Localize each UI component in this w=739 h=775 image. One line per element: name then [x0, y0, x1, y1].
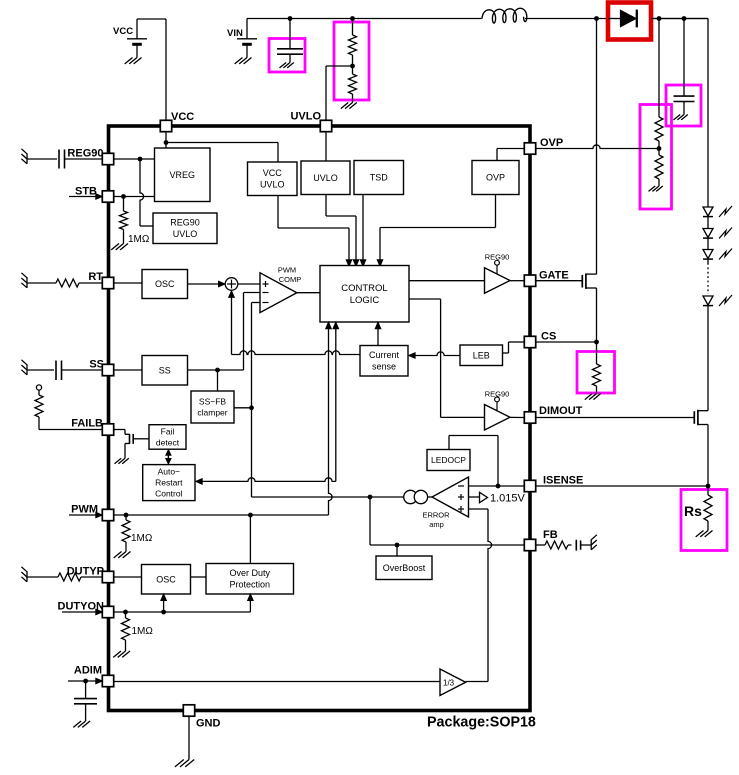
op-amp PWM COMP — [260, 266, 301, 313]
block Over Duty Protection — [206, 564, 294, 595]
wire LEDOCP to isense net — [449, 436, 498, 487]
node PWM branch ODP — [248, 513, 253, 518]
wire FB net — [370, 497, 524, 545]
op-amp ERROR amp — [422, 477, 468, 529]
resistor R-DUTYP — [21, 567, 102, 582]
svg-text:STB: STB — [75, 186, 97, 198]
node DUTYON branch osc — [161, 610, 166, 615]
pin UVLO — [320, 120, 331, 131]
node rail junction divider — [350, 16, 355, 21]
svg-text:PWM: PWM — [71, 504, 98, 516]
pin SS — [102, 364, 113, 375]
svg-text:Auto−: Auto− — [158, 467, 180, 477]
svg-text:SS: SS — [159, 365, 171, 375]
pin RT — [102, 277, 113, 288]
wire CS — [536, 341, 597, 343]
caption Package:SOP18 — [427, 715, 536, 731]
svg-text:DIMOUT: DIMOUT — [539, 405, 583, 417]
wire SS internal — [114, 369, 142, 371]
node isense-ledocp junction — [496, 484, 501, 489]
svg-text:REG90: REG90 — [485, 253, 510, 262]
LED string LED2 — [703, 228, 732, 239]
wire UVLO pin internal — [325, 132, 327, 161]
node OVP divider mid — [657, 146, 662, 151]
buffer 1/3 divider — [440, 669, 466, 696]
pin label UVLO — [290, 111, 321, 123]
node rail junction C-in — [288, 16, 293, 21]
wire DUTYON to over-duty — [248, 594, 254, 612]
wire OVP to logic — [377, 195, 495, 267]
svg-text:ADIM: ADIM — [74, 665, 102, 677]
wire REG90-UVLO link — [140, 159, 153, 226]
node SS branch — [215, 368, 220, 373]
svg-text:FAILB: FAILB — [71, 418, 103, 430]
pin label ISENSE — [543, 475, 583, 487]
pin label GATE — [539, 270, 569, 282]
svg-text:ISENSE: ISENSE — [543, 475, 583, 487]
capacitor C-REG90 — [21, 149, 102, 169]
resistor 1M STB — [111, 197, 150, 250]
block VCC UVLO — [248, 162, 298, 196]
pin label FAILB — [71, 418, 103, 430]
pin CS — [524, 336, 535, 347]
wire VCC-UVLO to logic — [278, 196, 352, 267]
block Auto-Restart Control — [143, 465, 195, 501]
block OverBoost — [376, 556, 432, 580]
LED string LEDn — [703, 295, 732, 306]
wire RT internal — [114, 282, 142, 284]
svg-text:OSC: OSC — [156, 574, 176, 584]
wire ISENSE — [536, 485, 708, 487]
resistor divider R-UVLO-top (magenta) — [334, 19, 369, 101]
svg-text:REG90: REG90 — [67, 148, 103, 160]
wire LEB to cs — [409, 352, 460, 358]
capacitor C-in (magenta) — [269, 19, 305, 73]
block Current sense — [360, 346, 408, 377]
svg-text:OVP: OVP — [486, 173, 505, 183]
pin label CS — [541, 331, 556, 343]
wire DUTYON internal — [114, 611, 251, 613]
svg-text:UVLO: UVLO — [290, 111, 321, 123]
pin GATE — [524, 275, 535, 286]
pin FAILB — [102, 424, 113, 435]
node overboost junction — [395, 543, 400, 548]
node REG90 branch — [138, 157, 143, 162]
buffer dimout driver — [485, 390, 511, 431]
diode D1 — [608, 3, 708, 40]
wire dotted continuation — [707, 260, 709, 294]
resistor Rs (magenta) — [681, 486, 727, 551]
node DUTYON branch 1M — [123, 610, 128, 615]
pin ISENSE — [524, 480, 535, 491]
pin label DUTYP — [67, 566, 104, 578]
wire comparator out — [297, 292, 320, 294]
block VREG — [155, 148, 211, 202]
resistor R-RT — [21, 273, 102, 288]
block OSC duty — [142, 565, 191, 595]
wire UVLO to logic — [326, 195, 359, 267]
svg-text:VCC: VCC — [171, 111, 194, 123]
svg-text:REG90: REG90 — [170, 218, 200, 228]
block UVLO — [301, 161, 350, 195]
svg-text:LEDOCP: LEDOCP — [431, 455, 466, 465]
wire STB internal — [114, 196, 155, 198]
svg-text:VCC: VCC — [113, 26, 133, 37]
capacitor C-FB — [576, 535, 597, 551]
wire UVLO tap — [326, 66, 353, 121]
wire logic to dim driver — [409, 299, 485, 417]
capacitor C-SS — [21, 360, 102, 380]
transistor Q3 fail open-drain — [114, 430, 149, 464]
current source output — [404, 490, 432, 503]
pin label REG90 — [67, 148, 103, 160]
svg-text:sense: sense — [372, 362, 396, 372]
capacitor C-ADIM — [68, 678, 102, 727]
pin DUTYP — [102, 571, 113, 582]
pin label OVP — [540, 137, 563, 149]
svg-text:VREG: VREG — [169, 170, 195, 180]
pin label FB — [543, 529, 558, 541]
svg-text:VCC: VCC — [263, 168, 283, 178]
svg-text:UVLO: UVLO — [313, 173, 338, 183]
block SS-FB clamper — [191, 391, 234, 423]
resistor 1M PWM — [114, 515, 153, 558]
reference 1.015V — [469, 492, 526, 504]
pin STB — [102, 191, 113, 202]
svg-text:Restart: Restart — [155, 478, 183, 488]
wire DUTYON to osc — [161, 594, 167, 612]
wire PWM to over-duty — [249, 515, 251, 564]
bidirectional arrow fail-restart — [166, 450, 171, 464]
wire REG90 internal — [114, 158, 155, 160]
node error out junction — [368, 495, 373, 500]
wire VCC internal — [166, 132, 278, 162]
pin label DUTYON — [58, 601, 105, 613]
svg-text:REG90: REG90 — [485, 390, 510, 399]
svg-text:1/3: 1/3 — [443, 679, 455, 688]
block OVP — [472, 161, 519, 195]
wire — [707, 239, 709, 250]
block TSD — [354, 161, 404, 195]
pin label ADIM — [74, 665, 102, 677]
wire error amp output — [366, 496, 404, 498]
svg-text:COMP: COMP — [279, 275, 302, 284]
wire gate driver out — [510, 280, 524, 282]
pin label GND — [196, 718, 221, 730]
pin GND — [183, 705, 194, 716]
pin label PWM — [71, 504, 98, 516]
wire logic to gate driver — [409, 280, 485, 282]
node PWM branch 1M — [124, 513, 129, 518]
pin label SS — [89, 359, 104, 371]
node rail post-diode A — [657, 16, 662, 21]
svg-text:TSD: TSD — [370, 173, 389, 183]
wire GND — [188, 711, 190, 717]
resistor 1M DUTYON — [113, 612, 153, 657]
wire cs to logic — [375, 322, 381, 345]
wire ADIM internal — [114, 681, 440, 683]
svg-text:LEB: LEB — [473, 350, 490, 360]
pin REG90 — [102, 153, 113, 164]
svg-text:Control: Control — [155, 489, 183, 499]
input arrow PWM — [69, 512, 102, 518]
wire summing to comparator — [238, 283, 260, 285]
ground GND pin — [175, 716, 194, 767]
pin PWM — [102, 509, 113, 520]
svg-text:GND: GND — [196, 718, 221, 730]
svg-text:amp: amp — [429, 520, 444, 529]
resistor R-OVP-bottom — [649, 149, 664, 192]
wire OVP feedback — [536, 145, 659, 149]
pin OVP — [524, 143, 535, 154]
wire comp input 2 net — [252, 303, 367, 498]
svg-text:OverBoost: OverBoost — [383, 563, 426, 573]
svg-text:DUTYP: DUTYP — [67, 566, 104, 578]
resistor R-CS (magenta) — [577, 342, 615, 400]
wire noninverting input 2 — [466, 509, 492, 682]
svg-text:CONTROL: CONTROL — [341, 283, 387, 294]
resistor divider R-OVP-top (magenta) — [640, 19, 672, 210]
wire dimout driver out — [510, 416, 524, 418]
wire inverting input — [469, 485, 525, 487]
node UVLO divider mid — [350, 64, 355, 69]
block REG90 UVLO — [153, 213, 217, 244]
input arrow STB — [69, 194, 102, 200]
svg-text:clamper: clamper — [197, 408, 227, 418]
svg-text:OVP: OVP — [540, 137, 563, 149]
wire OSC out — [188, 281, 226, 287]
resistor R-UVLO-bottom — [341, 66, 357, 109]
svg-text:1.015V: 1.015V — [490, 493, 526, 505]
wire TSD to logic — [360, 195, 366, 267]
svg-text:SS−FB: SS−FB — [199, 396, 226, 406]
pin FB — [524, 539, 535, 550]
input arrow DUTYON — [62, 609, 102, 615]
pin label STB — [75, 186, 97, 198]
svg-text:UVLO: UVLO — [260, 180, 285, 190]
inductor L1 — [482, 8, 527, 24]
pin DUTYON — [102, 606, 113, 617]
block SS — [142, 356, 188, 386]
resistor R-FAILB pull-up — [35, 385, 102, 430]
summing node — [225, 278, 238, 291]
svg-text:Package:SOP18: Package:SOP18 — [427, 715, 536, 731]
wire PWM internal — [114, 322, 332, 515]
wire — [707, 306, 709, 411]
buffer gate driver — [485, 253, 511, 294]
node STB branch — [121, 194, 126, 199]
svg-text:GATE: GATE — [539, 270, 569, 282]
wire to overboost — [396, 545, 398, 556]
pin DIMOUT — [524, 412, 535, 423]
transistor Q2 dimming FET — [694, 410, 708, 486]
svg-text:Over Duty: Over Duty — [230, 568, 271, 578]
svg-text:detect: detect — [156, 438, 180, 448]
wire LEB to CS pin — [503, 342, 525, 353]
svg-text:Rs: Rs — [684, 503, 702, 519]
capacitor C-out (magenta) — [666, 19, 701, 127]
svg-text:OSC: OSC — [155, 279, 175, 289]
svg-text:VIN: VIN — [227, 28, 243, 39]
pin label DIMOUT — [539, 405, 583, 417]
svg-text:CS: CS — [541, 331, 556, 343]
VCC supply source — [113, 19, 166, 121]
svg-text:UVLO: UVLO — [173, 229, 198, 239]
pin label VCC — [171, 111, 194, 123]
block Fail detect — [149, 425, 186, 450]
wire current sense feedback — [229, 291, 360, 355]
LED string LED1 — [703, 206, 732, 217]
resistor R-FB — [536, 541, 572, 549]
block LEDOCP — [427, 450, 470, 471]
block LEB — [460, 345, 503, 366]
node VCC branch — [164, 140, 169, 145]
wire VIN rail — [247, 19, 708, 208]
node rail post-diode B — [682, 16, 687, 21]
block OSC — [142, 270, 188, 299]
svg-text:FB: FB — [543, 529, 558, 541]
wire DIMOUT gate — [536, 417, 694, 419]
transistor Q1 switch FET — [536, 19, 597, 343]
VIN supply source — [227, 19, 257, 64]
svg-text:RT: RT — [88, 271, 103, 283]
IC package outline — [109, 126, 531, 711]
svg-text:1MΩ: 1MΩ — [128, 234, 150, 245]
svg-text:ERROR: ERROR — [422, 511, 450, 520]
svg-text:1MΩ: 1MΩ — [132, 626, 154, 637]
node rail switch node — [594, 16, 599, 21]
block CONTROL LOGIC — [320, 266, 409, 323]
wire SS out — [188, 293, 261, 371]
LED string LED3 — [703, 249, 732, 260]
wire — [707, 217, 709, 229]
node clamper junction — [249, 405, 254, 410]
wire to clamper — [217, 370, 219, 391]
pin label RT — [88, 271, 103, 283]
wire OVP pin internal — [497, 149, 524, 161]
svg-text:PWM: PWM — [278, 266, 296, 275]
svg-text:Protection: Protection — [230, 580, 271, 590]
wire clamper to comp input — [234, 407, 252, 409]
svg-text:LOGIC: LOGIC — [350, 295, 380, 306]
node CS junction — [594, 340, 599, 345]
node ISENSE junction — [706, 484, 711, 489]
svg-text:1MΩ: 1MΩ — [131, 533, 153, 544]
wire logic to auto-restart — [196, 322, 339, 484]
svg-text:Fail: Fail — [161, 426, 175, 436]
svg-text:Current: Current — [369, 350, 400, 360]
pin ADIM — [102, 675, 113, 686]
pin VCC — [160, 120, 171, 131]
svg-text:DUTYON: DUTYON — [58, 601, 105, 613]
wire DUTYP internal — [114, 576, 206, 578]
